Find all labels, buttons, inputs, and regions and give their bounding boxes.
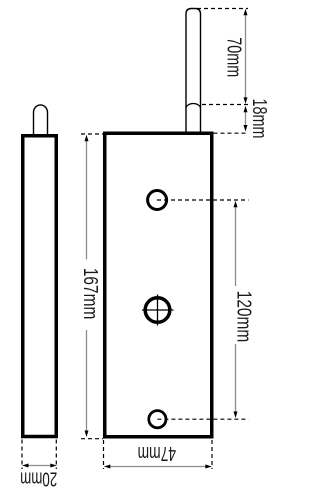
hole top: [148, 191, 167, 210]
magnet body: [23, 136, 57, 437]
dash body top right: [214, 132, 249, 134]
dim line 120mm lower: [235, 344, 237, 413]
dim line 70mm: [245, 13, 247, 100]
antenna: [186, 9, 201, 133]
dash ext 20mm left: [21, 440, 23, 470]
dash ext 47mm left: [103, 440, 105, 469]
svg-text:70mm: 70mm: [223, 37, 245, 77]
dim line 47mm: [108, 466, 208, 468]
dim line 167mm upper: [86, 139, 88, 260]
dash antenna joint: [202, 104, 248, 106]
dash hole top: [157, 199, 249, 201]
dash ext 47mm right: [211, 440, 213, 469]
hole middle: [145, 298, 170, 323]
svg-text:20mm: 20mm: [20, 468, 57, 490]
dash body bottom left: [81, 438, 103, 440]
hole bottom: [149, 411, 166, 428]
dim line 20mm: [26, 465, 53, 467]
main body: [105, 133, 212, 437]
dash ext 20mm right: [55, 440, 57, 470]
antenna joint arc: [186, 104, 201, 109]
dash hole bottom: [157, 418, 248, 420]
dim line 120mm upper: [235, 205, 237, 286]
magnet tab: [34, 105, 48, 136]
dash antenna top: [197, 8, 248, 10]
dash body top left: [81, 133, 103, 135]
svg-text:167mm: 167mm: [79, 268, 101, 320]
svg-text:18mm: 18mm: [248, 99, 270, 139]
svg-text:47mm: 47mm: [138, 442, 177, 464]
crosshair: [142, 295, 174, 326]
svg-text:120mm: 120mm: [232, 291, 254, 343]
dim line 18mm: [245, 110, 247, 127]
dim line 167mm lower: [86, 330, 88, 433]
